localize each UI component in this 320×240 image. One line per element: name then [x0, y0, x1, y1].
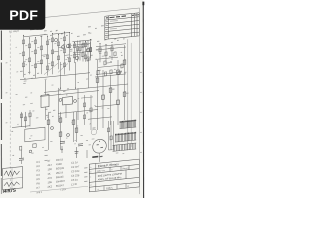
- capacitor C12: [19, 157, 24, 159]
- value label R530: [120, 71, 122, 72]
- wire R4x1: [99, 44, 101, 63]
- IC U10 pin row pad9: [129, 120, 130, 121]
- wire R1x4: [41, 36, 43, 74]
- wire C3: [110, 75, 112, 125]
- wire right tie 2: [98, 65, 124, 68]
- title block divider: [109, 167, 111, 171]
- title block rule 1: [89, 164, 139, 169]
- svg-text:R1: R1: [37, 160, 41, 164]
- title block designator column: [95, 163, 97, 191]
- white background: [0, 0, 149, 198]
- svg-text:1N4.8: 1N4.8: [56, 157, 63, 162]
- title block left edge: [88, 164, 90, 192]
- transistor Q3: [66, 44, 69, 48]
- value label R2x1c: [48, 62, 50, 65]
- connector J2 pin comb pin8: [123, 144, 125, 150]
- connector J1 pin comb pin3: [118, 135, 120, 142]
- wire to connector: [113, 121, 115, 150]
- wire R3x3: [85, 41, 87, 61]
- value label R3x4a: [86, 48, 88, 51]
- right area specks: [97, 41, 99, 42]
- IC U10 pin row pin14: [135, 121, 137, 127]
- IC U10 pin row bottom bar: [120, 127, 137, 129]
- caption mark: [30, 29, 35, 30]
- bus wire top tie 3: [73, 40, 93, 42]
- resistor R67: [20, 146, 22, 150]
- wire stub R3x2: [75, 53, 81, 56]
- value label R2x3c: [60, 63, 62, 66]
- blob LM5: [61, 149, 63, 151]
- connector J2 pin comb pin14: [133, 143, 135, 149]
- resistor R540: [123, 60, 126, 65]
- junction R4x2 top: [106, 44, 107, 45]
- svg-text:R3: R3: [37, 168, 41, 172]
- connector J1 pin comb pad8: [125, 133, 126, 134]
- wire LM4: [76, 112, 78, 142]
- resistor R81: [114, 52, 116, 56]
- svg-text:4K7: 4K7: [48, 163, 53, 168]
- revision table rule 1: [105, 17, 140, 20]
- svg-text:100: 100: [48, 167, 53, 171]
- title block rule 0: [89, 159, 139, 164]
- junction R1x5 top: [47, 36, 48, 37]
- connector J2 pin comb pin10: [127, 144, 129, 150]
- wire R1x2: [29, 38, 31, 74]
- connector J2 pin comb pin1: [112, 145, 114, 151]
- revision table rule 3: [105, 24, 140, 27]
- wire R2x4: [69, 32, 71, 70]
- svg-text:L1 6t: L1 6t: [71, 182, 77, 187]
- connector J1 pin comb pad6: [122, 133, 123, 134]
- value label R1x3b: [31, 50, 33, 53]
- resistor R88: [83, 115, 85, 119]
- transistor Q11: [118, 71, 121, 74]
- wire LL4: [21, 160, 23, 164]
- wire LL2: [25, 112, 27, 128]
- caption mark: [37, 29, 40, 30]
- title block right edge: [138, 159, 140, 187]
- resistor R2x3c: [63, 63, 65, 67]
- svg-text:2K2: 2K2: [48, 184, 53, 189]
- value label R2x3a: [60, 37, 62, 40]
- value label R2x3b: [60, 49, 62, 52]
- value label R3x3b: [81, 55, 83, 58]
- connector J1 pin comb pin6: [122, 134, 124, 141]
- transformer T1 circle: [93, 139, 107, 154]
- IC U10 pin row pad14: [135, 120, 136, 121]
- wire V3: [88, 58, 90, 88]
- wire RC1: [90, 42, 92, 58]
- connector J1 pin comb pin10: [128, 134, 130, 141]
- value label R541: [126, 93, 128, 94]
- wire U2 right: [77, 88, 79, 120]
- revision table column line: [136, 13, 138, 36]
- wire V1: [60, 62, 62, 88]
- resistor RX88: [87, 57, 89, 61]
- IC U2 box: [63, 96, 73, 104]
- resistor R4x2a: [105, 52, 107, 56]
- connector J1 pin comb pad11: [129, 132, 130, 133]
- title block divider: [120, 166, 122, 170]
- resistor R2x1a: [51, 38, 53, 42]
- transistor Q10: [62, 45, 65, 48]
- resistor R1x4a: [40, 46, 42, 50]
- wire stub R1x4: [36, 62, 42, 65]
- junction R2x3 top: [64, 32, 65, 33]
- revision table column line: [104, 16, 106, 39]
- wire X88: [87, 41, 89, 62]
- resistor R61: [47, 120, 50, 125]
- dark label mark 1: [92, 156, 98, 158]
- label mark near A: [93, 127, 96, 128]
- resistor R1x3b: [34, 50, 36, 54]
- wire R1x3: [35, 38, 37, 78]
- wire R1x5: [47, 36, 49, 76]
- connector J1 pin comb pad13: [132, 132, 133, 133]
- connector J1 pin comb pad12: [131, 132, 132, 133]
- resistor R531: [117, 100, 120, 105]
- wire stub R2x2: [53, 50, 59, 53]
- wire CH84: [84, 95, 86, 125]
- IC U10 pin row pad13: [134, 120, 135, 121]
- connector J2 pin comb pin13: [131, 143, 133, 149]
- bus wire top tie 2: [53, 32, 70, 34]
- scanned paper sheet: [0, 0, 144, 198]
- connector J1 pin comb pad15: [135, 132, 136, 133]
- resistor R2x4a: [68, 44, 70, 48]
- transistor Q7: [67, 133, 70, 136]
- IC U10 pin row pad7: [127, 120, 128, 121]
- wire C2: [102, 70, 104, 128]
- sheet frame top border: [4, 8, 140, 22]
- wire R2x3: [64, 32, 66, 75]
- revision table rule 2: [105, 20, 140, 23]
- wire to connector: [108, 121, 110, 150]
- page right edge shadow line: [142, 2, 144, 198]
- svg-text:10K: 10K: [48, 180, 53, 184]
- wire right tie 1: [96, 47, 126, 50]
- svg-text:R5: R5: [37, 177, 41, 181]
- wire X77: [77, 40, 79, 61]
- svg-text:C5 1u: C5 1u: [71, 177, 78, 182]
- value label R3x1b: [70, 54, 72, 57]
- resistor R60: [20, 114, 22, 118]
- wire V2: [75, 62, 77, 88]
- waveform trace 1: [4, 170, 20, 177]
- wire R4x3: [111, 45, 113, 60]
- connector J2 pin comb pin5: [119, 145, 121, 151]
- wire U2 left: [58, 88, 60, 122]
- resistor R1x1c: [22, 63, 24, 67]
- junction R3x1 top: [74, 42, 75, 43]
- wire R2x1: [52, 34, 54, 75]
- PDF badge: [0, 0, 45, 30]
- IC U10 pin row pin2: [120, 122, 122, 128]
- junction R3x4 top: [90, 39, 91, 40]
- resistor R85: [110, 70, 112, 74]
- value label R3x1a: [70, 44, 72, 47]
- wire R3x2: [79, 41, 81, 60]
- value label R2x2a: [54, 42, 56, 45]
- wire to U1: [45, 80, 47, 95]
- wire LL3: [21, 150, 23, 158]
- svg-text:R2: R2: [37, 164, 41, 168]
- resistor R87: [83, 103, 85, 107]
- resistor R4x3a: [111, 47, 113, 51]
- svg-text:BF245: BF245: [56, 175, 64, 180]
- connector J2 pin comb pin12: [130, 144, 132, 150]
- junction R3x2 top: [80, 41, 81, 42]
- value label R4x1a: [96, 48, 98, 51]
- resistor R65: [75, 128, 78, 133]
- parts list bottom rule: [30, 186, 88, 192]
- IC U10 pin row pin9: [129, 121, 131, 127]
- revision table rule 6: [105, 36, 140, 39]
- value label R520: [112, 89, 114, 90]
- label mark LL2: [45, 160, 48, 161]
- zone ruler ticks right margin: [140, 52, 142, 53]
- resistor RX83: [82, 43, 84, 47]
- junction R2x1 top: [52, 33, 53, 34]
- revision table column line: [138, 13, 140, 36]
- wire C4: [117, 60, 119, 125]
- wire to J2: [109, 149, 113, 152]
- transistor Q9: [55, 38, 58, 41]
- resistor R64: [72, 120, 75, 125]
- svg-text:PDF: PDF: [9, 8, 38, 24]
- value label R2x4b: [65, 58, 67, 61]
- title block rule 3: [89, 177, 139, 182]
- wire stub R2x4: [65, 54, 70, 56]
- svg-text:470: 470: [48, 176, 53, 180]
- junction R1x3 top: [35, 37, 36, 38]
- connector J1 pin comb pin11: [129, 134, 131, 141]
- electrolytic capacitor C13: [76, 147, 78, 158]
- resistor R541: [123, 92, 126, 97]
- value label R1x2b: [25, 58, 27, 61]
- transistor Q6: [51, 126, 54, 129]
- title block divider: [103, 186, 105, 191]
- connector J2 pin comb top bar: [113, 143, 137, 145]
- bus wire long tie y76: [20, 73, 90, 80]
- title block divider: [125, 170, 127, 179]
- title block rule 5: [89, 187, 139, 192]
- connector J2 pin comb pin3: [115, 145, 117, 151]
- wire CH91: [90, 95, 92, 130]
- junction V2-H1: [75, 88, 76, 89]
- wire stub R1x5: [42, 54, 48, 57]
- value label R1x1b: [19, 52, 21, 55]
- transistor Q5: [74, 99, 77, 102]
- resistor R3x1b: [73, 54, 75, 58]
- transistor Q4: [59, 98, 62, 101]
- waveform box vertical divider: [11, 168, 13, 189]
- capacitor C10: [60, 140, 65, 142]
- resistor R3x3b: [84, 55, 86, 59]
- svg-text:R6: R6: [37, 181, 41, 185]
- connector J1 pin comb pin4: [119, 135, 121, 142]
- connector J2 pin comb pin7: [122, 144, 124, 150]
- zone ruler ticks left margin: [6, 62, 8, 63]
- connector J1 pin comb pin5: [120, 134, 122, 141]
- IC U10 pin row pad11: [132, 120, 133, 121]
- bus wire horizontal H2: [40, 91, 99, 97]
- resistor R83: [97, 70, 99, 74]
- IC U10 pin row pin5: [124, 122, 126, 128]
- IC U10 pin row pin10: [130, 121, 132, 127]
- resistor R86: [89, 47, 91, 51]
- resistor RX83: [82, 52, 84, 56]
- connector J2 pin comb pin4: [117, 145, 119, 151]
- feedback loop wire rectangle: [25, 127, 45, 142]
- title block divider: [128, 165, 130, 169]
- wire U2 down: [65, 105, 67, 119]
- resistor R62: [59, 118, 62, 123]
- resistor R63: [59, 132, 62, 137]
- IC U10 pin row pin13: [133, 121, 135, 127]
- connector J1 pin comb pad10: [128, 133, 129, 134]
- value label R1x2a: [25, 44, 27, 47]
- wire LL5: [29, 110, 31, 127]
- IC U10 pin row pad8: [127, 120, 130, 121]
- connector J1 pin comb pin1: [115, 135, 117, 142]
- waveform inset box: [3, 167, 23, 190]
- resistor R1x3c: [34, 64, 36, 68]
- resistor R1x3a: [34, 40, 36, 44]
- resistor R3x4a: [89, 48, 91, 52]
- resistor R2x1c: [51, 62, 53, 66]
- resistor R2x3a: [63, 37, 65, 41]
- resistor R1x5b: [46, 55, 48, 59]
- wire right H3: [95, 74, 126, 77]
- svg-text:R4: R4: [37, 173, 41, 177]
- title block divider: [116, 185, 118, 190]
- wire from U1: [45, 107, 47, 120]
- IC U10 pin row pad3: [122, 121, 123, 122]
- wire R2x2: [58, 35, 60, 70]
- revision table column line: [134, 13, 136, 36]
- resistor R1x1a: [22, 40, 24, 44]
- revision table column line: [108, 16, 110, 39]
- top-middle density specks: [61, 33, 63, 34]
- connector J2 pin comb pin11: [128, 144, 130, 150]
- wire LM1: [48, 112, 50, 150]
- wire to connector: [110, 121, 112, 150]
- connector J2 pin comb pin6: [120, 145, 122, 151]
- wire stub R4x3: [106, 62, 112, 65]
- wire LM5: [61, 146, 63, 153]
- wire R1x1: [23, 35, 25, 77]
- sheet frame right border: [138, 8, 140, 194]
- connector J1 pin comb pad14: [134, 132, 135, 133]
- connector J1 pin comb pin2: [116, 135, 118, 142]
- dashed ellipse detail A: [91, 129, 97, 135]
- resistor R530: [117, 70, 120, 75]
- IC U10 pin row top bar: [120, 121, 137, 123]
- IC U10 pin row pad4: [123, 121, 124, 122]
- junction R2x2 top: [58, 34, 59, 35]
- svg-text:d: d: [90, 185, 91, 187]
- connector J2 pin comb pin15: [135, 143, 137, 149]
- wire R3x4: [90, 39, 92, 60]
- resistor R510: [102, 95, 105, 100]
- value label R1x4b: [37, 60, 39, 63]
- resistor R2x4b: [68, 58, 70, 62]
- bus wire top tie 1: [24, 34, 48, 36]
- tick mark: [13, 155, 15, 156]
- waveform box midline: [3, 177, 23, 179]
- wire LM2: [60, 112, 62, 150]
- resistor R71: [110, 136, 112, 140]
- resistor R2x3b: [63, 49, 65, 53]
- connector J1 pin comb top bar: [115, 133, 136, 135]
- wire LM3: [73, 112, 75, 142]
- connector J2 pin comb pin2: [114, 145, 116, 151]
- resistor R60b: [24, 117, 26, 121]
- right vertical bus wire: [127, 39, 129, 150]
- junction R3x3 top: [85, 41, 86, 42]
- junction V1-H1: [60, 88, 61, 89]
- svg-text:c: c: [90, 176, 91, 178]
- wire right mid: [96, 57, 118, 59]
- IC U10 pin row pin12: [132, 121, 134, 127]
- svg-text:2N2.9: 2N2.9: [56, 170, 63, 175]
- resistor R2x1b: [51, 50, 53, 54]
- value label R1x3c: [31, 64, 33, 67]
- revision table rule 0: [105, 13, 140, 16]
- resistor R89: [90, 108, 92, 112]
- resistor R80: [104, 61, 106, 65]
- resistor R3x2a: [79, 47, 81, 51]
- IC U10 pin row pad12: [133, 120, 134, 121]
- connector J1 pin comb pad7: [124, 133, 125, 134]
- svg-text:C1 1n: C1 1n: [71, 160, 78, 165]
- junction R2x4 top: [69, 32, 70, 33]
- IC U10 pin row pad2: [121, 121, 122, 122]
- IC U10 pin row pad10: [130, 120, 131, 121]
- revision table header text: [106, 17, 108, 18]
- page left edge scan line segments: [0, 31, 2, 61]
- resistor R1x2b: [28, 58, 30, 62]
- revision table row marks: [106, 21, 108, 22]
- diagonal wire D2: [58, 63, 68, 72]
- resistor R68: [29, 113, 31, 117]
- resistor R3x1a: [73, 44, 75, 48]
- resistor R70: [107, 128, 109, 132]
- connector J1 pin comb pad3: [118, 134, 119, 135]
- connector J1 pin comb pin7: [123, 134, 125, 141]
- transistor Q1: [75, 56, 78, 60]
- resistor R1x1b: [22, 52, 24, 56]
- IC U10 pin row pin8: [127, 122, 129, 128]
- wire right H5: [88, 117, 112, 119]
- IC U10 pin row pin6: [125, 122, 127, 128]
- wire right H4: [95, 104, 120, 106]
- resistor R3x3a: [84, 43, 86, 47]
- title block rule 2: [89, 169, 139, 174]
- IC U10 pin row pad1: [120, 121, 121, 122]
- junction R1x2 top: [29, 37, 30, 38]
- wire LL1: [21, 112, 23, 127]
- wire tie TM2: [74, 51, 91, 53]
- value label R1x5b: [43, 55, 45, 58]
- connector J1 pin comb bottom bar: [115, 140, 136, 142]
- connector J1 pin comb pin13: [132, 133, 134, 140]
- resistor R500: [96, 78, 99, 83]
- resistor R84: [104, 72, 106, 76]
- resistor R1x5c: [46, 66, 48, 70]
- waveform trace 2: [4, 181, 20, 187]
